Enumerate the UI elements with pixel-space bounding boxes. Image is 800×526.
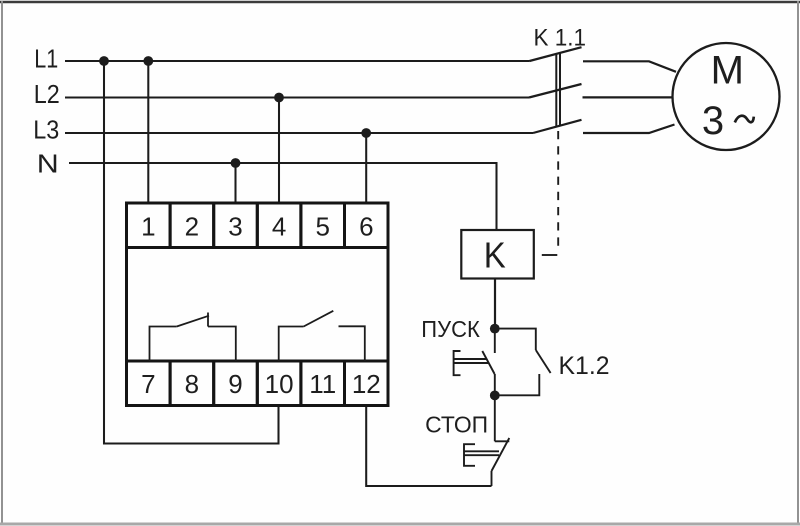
node L2 terminal-4 junction <box>274 93 284 103</box>
wire coil K to node PUSK <box>494 279 496 327</box>
wire N to coil K <box>69 163 497 230</box>
terminal 11 cell <box>301 361 345 406</box>
svg-text:10: 10 <box>265 369 294 399</box>
pushbutton PUSK (NO) <box>454 329 495 396</box>
node PUSK bottom junction <box>490 391 500 401</box>
relay contact 7-9 <box>150 313 236 362</box>
node L3 terminal-6 junction <box>361 128 371 138</box>
svg-text:12: 12 <box>352 369 381 399</box>
node L1 terminal-1 junction <box>143 56 153 66</box>
terminal 1 cell <box>127 203 171 248</box>
node N terminal-3 junction <box>231 158 241 168</box>
terminal 2 cell <box>170 203 214 248</box>
svg-text:L1: L1 <box>34 43 58 73</box>
svg-text:9: 9 <box>228 369 242 399</box>
svg-text:M: M <box>711 49 744 93</box>
svg-text:СТОП: СТОП <box>425 412 488 438</box>
wire L2 to terminal 4 <box>278 98 280 204</box>
svg-text:3: 3 <box>702 99 724 143</box>
pushbutton STOP (NC) <box>464 395 509 486</box>
svg-text:7: 7 <box>141 369 155 399</box>
svg-text:6: 6 <box>359 211 373 241</box>
wire L1 bypass to terminal 10 <box>104 61 279 444</box>
svg-text:8: 8 <box>185 369 199 399</box>
wire N to terminal 3 <box>234 163 236 203</box>
terminal 7 cell <box>127 361 171 406</box>
svg-text:L3: L3 <box>33 114 59 144</box>
svg-text:ПУСК: ПУСК <box>421 316 480 342</box>
svg-text:3: 3 <box>228 211 242 241</box>
terminal 10 cell <box>257 361 301 406</box>
svg-text:N: N <box>37 149 59 179</box>
terminal 6 cell <box>345 203 389 248</box>
terminal 12 cell <box>345 361 389 406</box>
svg-text:K1.2: K1.2 <box>559 352 610 380</box>
relay contact 10-12 <box>279 311 365 361</box>
terminal 4 cell <box>257 203 301 248</box>
terminal 3 cell <box>214 203 258 248</box>
contactor K1.1 pole L3 arm <box>533 120 582 133</box>
contactor K1.1 pole L2 arm <box>529 84 582 98</box>
wire L1 <box>65 60 530 62</box>
wire K1.1 to motor phase 1 <box>583 61 676 72</box>
node PUSK top junction <box>490 324 500 334</box>
relay terminal block outline <box>127 203 389 406</box>
terminal 8 cell <box>170 361 214 406</box>
contact K1.2 (NO, parallel) <box>495 329 551 396</box>
terminal 5 cell <box>301 203 345 248</box>
svg-text:K: K <box>484 235 506 276</box>
wire L3 <box>65 132 533 134</box>
dashed link K1.1 to coil K <box>542 131 558 255</box>
contactor K1.1 linkage bar <box>556 53 560 127</box>
wire L2 <box>65 96 529 98</box>
frame (decorative) <box>0 1 800 3</box>
wire K1.1 to motor phase 3 <box>583 125 675 134</box>
svg-text:5: 5 <box>315 211 329 241</box>
wire L1 to terminal 1 <box>147 61 149 203</box>
motor M1 label 3~ <box>702 99 754 143</box>
wire K1.1 to motor phase 2 <box>583 96 674 98</box>
svg-text:1: 1 <box>141 211 155 241</box>
coil K box <box>461 230 534 279</box>
node L1 bypass junction <box>99 56 109 66</box>
svg-text:L2: L2 <box>34 79 60 109</box>
wire L3 to terminal 6 <box>365 133 367 203</box>
svg-text:2: 2 <box>185 211 199 241</box>
svg-text:4: 4 <box>272 211 286 241</box>
contactor K1.1 pole L1 arm <box>530 47 582 61</box>
terminal 9 cell <box>214 361 258 406</box>
motor M1 circle <box>673 43 780 150</box>
wire terminal 12 to stop button <box>366 406 491 487</box>
svg-text:11: 11 <box>309 369 336 399</box>
